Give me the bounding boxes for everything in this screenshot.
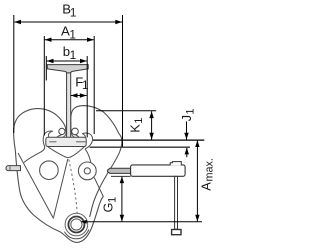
web right fillet: [71, 131, 75, 137]
svg-text:1: 1: [82, 78, 89, 92]
svg-text:K: K: [129, 124, 143, 133]
L2 flange-top line: [93, 139, 204, 141]
left pin: [6, 166, 21, 171]
B1 ext lines: [13, 15, 15, 133]
web left fillet: [63, 131, 67, 137]
spindle shaft: [108, 168, 131, 173]
left lobe inner flare over roller: [57, 128, 66, 138]
label A max. (rotated): [198, 158, 215, 191]
handle foot: [172, 230, 181, 235]
inner U arc around bottom boss: [64, 230, 89, 239]
handle rod: [175, 176, 178, 229]
rollers: [59, 128, 65, 134]
clamp body outline (right lobe and right S-edge): [71, 106, 122, 217]
svg-text:J: J: [180, 115, 194, 121]
bottom suspension boss: [65, 213, 88, 236]
svg-text:1: 1: [69, 27, 76, 41]
svg-text:max.: max.: [203, 158, 215, 181]
F1 dim arrows: [71, 95, 87, 97]
svg-text:A: A: [198, 182, 213, 191]
left jaw hook: [24, 131, 53, 162]
svg-text:1: 1: [70, 5, 77, 19]
right lobe inner flare over roller: [71, 128, 79, 138]
Amax dim: [196, 140, 198, 221]
beam bottom flange: [46, 137, 86, 146]
bottom reference line: [82, 221, 203, 223]
svg-text:G: G: [102, 203, 116, 213]
hidden rear plate edge (dashed): [69, 160, 77, 214]
pivot bolt: [78, 162, 96, 180]
jaw lip lines over flange: [49, 141, 86, 143]
spindle underside line: [111, 175, 131, 177]
cap on cylinder: [170, 162, 181, 166]
spindle cylinder: [131, 165, 186, 176]
pivot to arm line: [94, 178, 103, 197]
label K1 (rotated): [129, 118, 146, 133]
front plate left edge: [18, 153, 54, 219]
clamp body outline (left lobe, left edge, bottom U): [14, 109, 104, 243]
jaw arm to pivot: [85, 149, 91, 163]
right jaw hook: [82, 133, 92, 149]
svg-text:1: 1: [106, 197, 118, 203]
K1 top line: [96, 110, 156, 112]
A1 dim line: [45, 39, 94, 41]
left leg inner line: [54, 159, 68, 218]
b1 ext lines: [45, 56, 47, 81]
drape curves under flange: [46, 145, 86, 158]
svg-text:1: 1: [133, 118, 145, 124]
J1 arrows: [186, 122, 188, 140]
B1 dim line: [14, 21, 122, 23]
svg-text:1: 1: [184, 108, 196, 114]
beam web: [67, 73, 71, 138]
beam top flange: [47, 65, 88, 74]
svg-text:1: 1: [70, 48, 77, 62]
K1 dim: [151, 111, 153, 139]
label G1 (rotated): [102, 197, 119, 213]
b1 dim line: [47, 60, 87, 62]
A1 ext lines: [43, 36, 45, 136]
left hole: [40, 161, 59, 180]
G1 dim: [121, 177, 123, 222]
label J1 (rotated): [180, 108, 197, 121]
L3 flange-bottom line: [90, 146, 190, 148]
